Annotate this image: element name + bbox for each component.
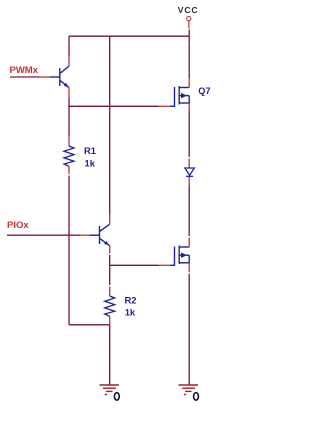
svg-text:1k: 1k (85, 157, 96, 168)
transistor Q2 (NPN, PIOx emitter follower) (90, 224, 110, 246)
wire: VCC drop to rail (188, 30, 190, 37)
wire: Q1 emitter down to R1 (68, 98, 70, 137)
pin: Q2 emitter stub (109, 246, 111, 254)
svg-text:Q7: Q7 (198, 86, 210, 96)
pin: Q7 drain stub (188, 78, 190, 88)
svg-text:1k: 1k (125, 306, 136, 317)
pin: diode cathode stub (188, 177, 190, 186)
wire: R1 bottom down left column (68, 176, 70, 325)
label 0 (left ground) (114, 393, 119, 401)
wire: emitter node to Q8 gate (110, 264, 159, 266)
pin: Q8 source stub (188, 263, 190, 273)
wire: R2 node down to ground (109, 325, 111, 385)
resistor R2 (105, 296, 115, 316)
pin: R1 top stub (68, 136, 70, 146)
pin: Q8 gate stub (red) (159, 264, 171, 266)
wire: left column upper (rail to Q1 collector) (68, 36, 70, 56)
pin: Q7 gate stub (red) (159, 105, 171, 107)
wire: emitter node to Q7 gate (69, 105, 159, 107)
resistor R1 (64, 146, 74, 166)
svg-text:R2: R2 (125, 295, 137, 306)
power symbol VCC (187, 17, 191, 29)
wire: right column upper (rail to Q7 drain) (188, 36, 190, 78)
wire: Q8 source down to ground (188, 274, 190, 385)
pin: Q1 base stub (red) (40, 76, 50, 78)
wire: bottom link to R2 node (69, 324, 110, 326)
wire: PIOx to Q2 base (7, 234, 80, 236)
wire: middle column (rail to Q2 collector) (109, 36, 111, 214)
mosfet Q7 (170, 86, 189, 106)
svg-text:VCC: VCC (178, 5, 199, 15)
pin: Q2 base stub (red) (80, 234, 91, 236)
wire: PWMx to Q1 base (10, 76, 40, 78)
svg-text:R1: R1 (84, 145, 96, 156)
svg-text:PIOx: PIOx (7, 220, 29, 231)
mosfet Q8 (lower) (170, 246, 189, 266)
pin: R1 bottom stub (68, 166, 70, 174)
transistor Q1 (NPN, PWMx emitter follower) (50, 66, 69, 87)
wire: Q2 emitter down to R2 (109, 255, 111, 285)
svg-text:PWMx: PWMx (10, 65, 39, 76)
ground 0 (left) (100, 385, 120, 395)
pin: Q2 collector stub (109, 215, 111, 225)
pin: Q7 source stub (188, 103, 190, 111)
pin: R2 bottom stub (109, 316, 111, 325)
pin: Q1 collector stub (68, 57, 70, 67)
ground 0 (right) (179, 385, 199, 395)
pin: Q8 drain stub (188, 238, 190, 248)
wire: diode cathode to Q8 drain (188, 186, 190, 237)
pin: Q1 emitter stub (68, 88, 70, 98)
wire: Q7 source to diode anode (188, 111, 190, 157)
pin: diode anode stub (188, 159, 190, 168)
diode D1 (185, 168, 194, 176)
pin: R2 top stub (109, 287, 111, 297)
wire: top VCC rail (69, 35, 189, 37)
label 0 (right ground) (194, 393, 199, 401)
